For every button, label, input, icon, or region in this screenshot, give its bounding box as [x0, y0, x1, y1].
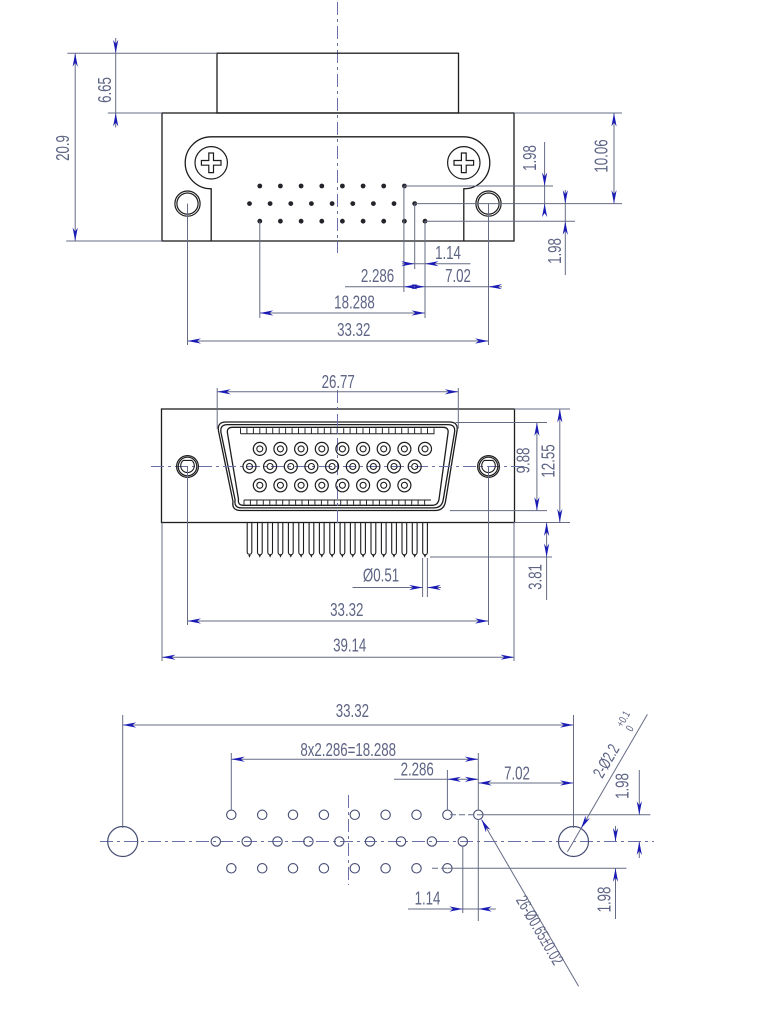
svg-text:39.14: 39.14	[333, 635, 366, 656]
svg-text:26-Ø0.65±0.02: 26-Ø0.65±0.02	[511, 893, 566, 969]
svg-text:20.9: 20.9	[53, 135, 74, 161]
svg-text:7.02: 7.02	[504, 763, 530, 784]
svg-text:33.32: 33.32	[337, 320, 370, 341]
svg-text:6.65: 6.65	[95, 77, 116, 103]
svg-text:1.98: 1.98	[594, 887, 615, 913]
svg-text:2.286: 2.286	[361, 266, 394, 287]
svg-text:33.32: 33.32	[330, 600, 363, 621]
svg-text:1.98: 1.98	[520, 145, 541, 171]
svg-text:Ø0.51: Ø0.51	[363, 565, 399, 586]
svg-text:10.06: 10.06	[591, 139, 612, 172]
svg-text:1.14: 1.14	[415, 888, 441, 909]
svg-text:12.55: 12.55	[538, 444, 559, 477]
svg-text:3.81: 3.81	[525, 564, 546, 590]
svg-text:7.02: 7.02	[445, 266, 471, 287]
svg-text:0: 0	[624, 723, 637, 734]
svg-text:1.14: 1.14	[435, 243, 461, 264]
svg-text:1.98: 1.98	[612, 773, 633, 799]
svg-text:33.32: 33.32	[336, 701, 369, 722]
svg-text:1.98: 1.98	[545, 238, 566, 264]
svg-text:9.88: 9.88	[513, 448, 534, 474]
svg-text:26.77: 26.77	[322, 372, 355, 393]
svg-text:2.286: 2.286	[401, 759, 434, 780]
svg-text:8x2.286=18.288: 8x2.286=18.288	[300, 740, 396, 761]
svg-text:18.288: 18.288	[334, 292, 375, 313]
